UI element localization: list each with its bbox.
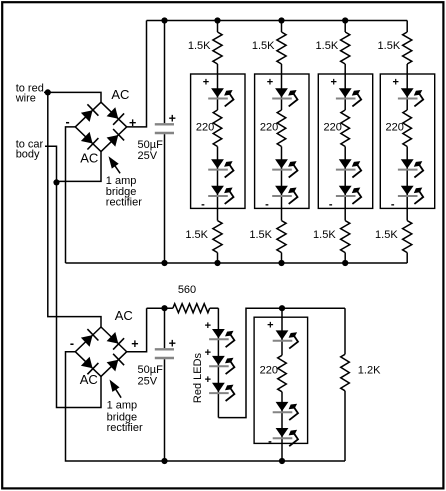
svg-text:1 amp: 1 amp xyxy=(107,400,138,412)
svg-text:+: + xyxy=(205,374,211,386)
svg-text:220: 220 xyxy=(196,122,214,134)
svg-text:1.5K: 1.5K xyxy=(252,40,275,52)
svg-text:-: - xyxy=(329,199,333,211)
svg-text:1.2K: 1.2K xyxy=(358,365,381,377)
svg-text:+: + xyxy=(267,319,273,331)
svg-text:body: body xyxy=(16,149,40,161)
svg-text:Red LEDs: Red LEDs xyxy=(192,352,204,403)
svg-text:-: - xyxy=(268,436,272,448)
svg-text:+: + xyxy=(205,347,211,359)
svg-text:+: + xyxy=(267,76,273,88)
svg-text:+: + xyxy=(392,76,398,88)
svg-text:1.5K: 1.5K xyxy=(378,40,401,52)
svg-text:-: - xyxy=(66,115,70,129)
svg-text:AC: AC xyxy=(80,151,98,166)
svg-text:-: - xyxy=(265,199,269,211)
svg-text:220: 220 xyxy=(260,122,278,134)
svg-text:1.5K: 1.5K xyxy=(313,229,336,241)
svg-text:AC: AC xyxy=(80,372,98,387)
svg-text:+: + xyxy=(131,337,138,351)
svg-text:220: 220 xyxy=(386,122,404,134)
svg-text:-: - xyxy=(201,199,205,211)
svg-text:50µF: 50µF xyxy=(138,364,164,376)
svg-text:220: 220 xyxy=(260,365,278,377)
svg-text:-: - xyxy=(391,199,395,211)
svg-text:25V: 25V xyxy=(138,150,158,162)
svg-text:+: + xyxy=(205,320,211,332)
svg-text:1.5K: 1.5K xyxy=(188,40,211,52)
svg-text:+: + xyxy=(169,337,176,351)
svg-text:AC: AC xyxy=(115,308,133,323)
svg-text:220: 220 xyxy=(324,122,342,134)
svg-text:1.5K: 1.5K xyxy=(375,229,398,241)
svg-text:rectifier: rectifier xyxy=(107,422,143,434)
svg-text:-: - xyxy=(70,336,74,350)
svg-text:+: + xyxy=(203,76,209,88)
svg-text:1.5K: 1.5K xyxy=(249,229,272,241)
svg-text:1.5K: 1.5K xyxy=(316,40,339,52)
svg-text:560: 560 xyxy=(178,284,196,296)
svg-text:wire: wire xyxy=(15,93,36,105)
svg-text:1.5K: 1.5K xyxy=(185,229,208,241)
svg-text:rectifier: rectifier xyxy=(106,197,142,209)
svg-text:+: + xyxy=(129,116,136,130)
svg-text:+: + xyxy=(330,76,336,88)
svg-text:+: + xyxy=(169,112,176,126)
svg-text:25V: 25V xyxy=(138,375,158,387)
svg-text:AC: AC xyxy=(111,87,129,102)
